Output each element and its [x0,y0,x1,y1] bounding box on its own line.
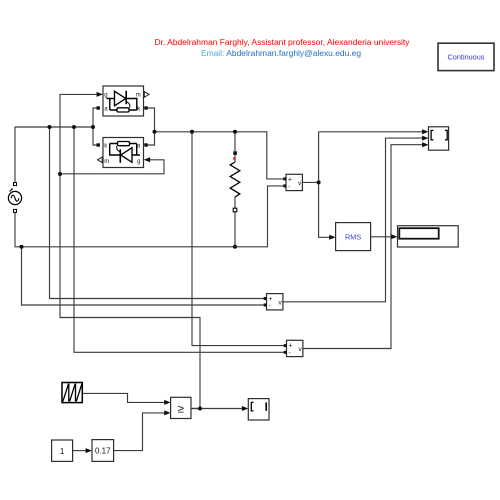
svg-text:Email: Abdelrahman.farghly@ale: Email: Abdelrahman.farghly@alexu.edu.eg [201,48,361,58]
svg-text:g: g [104,93,107,99]
svg-text:+: + [268,296,272,303]
svg-text:-: - [288,184,290,190]
svg-text:+: + [288,343,292,350]
svg-text:Dr. Abdelrahman Farghly, Assis: Dr. Abdelrahman Farghly, Assistant profe… [155,37,411,47]
svg-text:-: - [289,350,291,356]
svg-text:0.17: 0.17 [95,447,111,456]
svg-text:RMS: RMS [345,233,361,242]
svg-text:≥: ≥ [178,403,184,415]
svg-text:1: 1 [60,447,65,456]
svg-text:g: g [137,159,140,165]
svg-text:-: - [269,304,271,310]
svg-text:m: m [104,159,109,165]
svg-text:+: + [288,177,292,184]
svg-text:m: m [136,93,141,99]
svg-text:Continuous: Continuous [448,53,485,62]
